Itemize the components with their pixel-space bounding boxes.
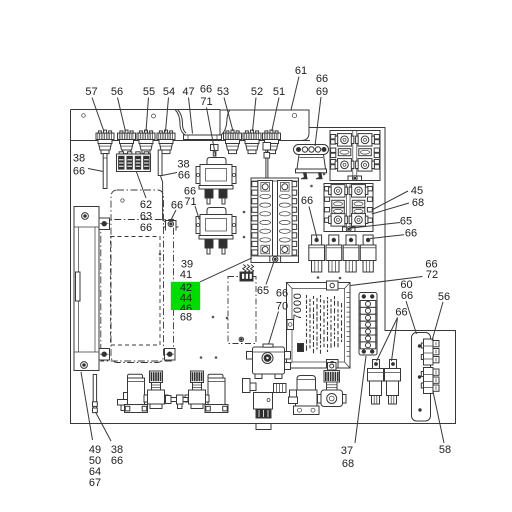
air valve item 70 — [253, 347, 285, 374]
filter block — [254, 393, 273, 410]
svg-text:66: 66 — [316, 73, 328, 85]
wire from rod to clip — [160, 176, 165, 223]
hidden bracket outline (dash-dot) — [111, 190, 164, 363]
wire from stud 51 to fuse block — [263, 143, 271, 151]
svg-text:72: 72 — [426, 269, 438, 281]
svg-text:68: 68 — [180, 312, 192, 324]
control module 7000 (item 72) — [287, 283, 351, 369]
svg-text:65: 65 — [400, 216, 412, 228]
circuit breaker panel 2 — [324, 184, 373, 232]
svg-text:57: 57 — [85, 86, 97, 98]
svg-text:54: 54 — [163, 86, 175, 98]
module fine print (simulated) — [307, 295, 342, 354]
relay item 66/71 upper — [207, 158, 226, 165]
svg-text:37: 37 — [341, 445, 353, 457]
breaker terminal unit 1 (item 66) — [312, 235, 322, 245]
leader lines — [81, 77, 444, 444]
svg-text:69: 69 — [316, 86, 328, 98]
relay B (item 66) — [390, 360, 397, 369]
MELLON logo block — [298, 344, 304, 352]
panel hole near bracket 47 right — [222, 114, 226, 118]
mounting pad top-left — [99, 218, 110, 230]
terminal stud 7 — [263, 130, 281, 154]
svg-text:56: 56 — [111, 86, 123, 98]
svg-text:56: 56 — [438, 291, 450, 303]
union fitting — [274, 384, 287, 393]
rod item 38 bottom — [93, 375, 96, 412]
svg-text:66: 66 — [395, 307, 407, 319]
relay item 66/69 — [294, 145, 329, 155]
mounting pad bottom-left — [99, 349, 110, 361]
relay item 66/71 lower — [207, 208, 226, 215]
svg-text:68: 68 — [342, 458, 354, 470]
tee fitting — [166, 396, 172, 404]
svg-text:38: 38 — [73, 153, 85, 165]
svg-text:41: 41 — [180, 269, 192, 281]
solenoid valve A — [128, 374, 143, 378]
terminal stud 5 — [224, 130, 242, 154]
svg-text:63: 63 — [140, 211, 152, 223]
hidden connector box (dash-dot) — [228, 277, 256, 344]
wavy pins item 65 area — [243, 265, 246, 273]
svg-text:66: 66 — [140, 222, 152, 234]
rod item 38 right — [158, 150, 162, 176]
terminal stud 4 — [157, 130, 175, 154]
panel main outline — [71, 110, 456, 424]
terminal stud 3 — [137, 130, 155, 154]
elbow fitting — [243, 379, 251, 393]
terminal strip item 37 — [359, 293, 377, 356]
cover plate item 61 — [220, 110, 309, 141]
svg-text:7000: 7000 — [292, 292, 304, 320]
svg-text:45: 45 — [411, 185, 423, 197]
terminal stud 2 — [118, 130, 136, 154]
panel bottom tab — [256, 424, 271, 430]
terminal stud 1 — [96, 130, 114, 154]
pressure regulator F — [328, 363, 337, 371]
relay A (item 66) — [373, 360, 380, 369]
svg-text:66: 66 — [111, 455, 123, 467]
solenoid valve E — [297, 376, 316, 391]
connector item 58 — [424, 368, 434, 394]
pressure regulator B — [150, 371, 163, 383]
svg-text:66: 66 — [200, 84, 212, 96]
svg-text:62: 62 — [140, 199, 152, 211]
svg-text:66: 66 — [73, 166, 85, 178]
breaker terminal unit 4 (item 66) — [363, 235, 373, 245]
svg-text:58: 58 — [439, 444, 451, 456]
connector block items 62/63 — [117, 154, 151, 172]
svg-text:66: 66 — [401, 290, 413, 302]
clip item 66 with screw — [163, 221, 179, 231]
bracket item 47 — [175, 110, 230, 136]
svg-text:71: 71 — [200, 96, 212, 108]
mounting plate item 60 — [412, 333, 431, 422]
module edge ticks — [347, 293, 351, 357]
svg-text:52: 52 — [251, 86, 263, 98]
fuse block (items 39/41/42/44/46/68) — [251, 178, 299, 263]
svg-text:66: 66 — [171, 200, 183, 212]
svg-text:66: 66 — [405, 228, 417, 240]
terminal stud 6 — [243, 130, 261, 154]
circuit breaker panel 1 — [330, 131, 380, 181]
svg-text:61: 61 — [295, 65, 307, 77]
mounting pad bottom-right — [165, 349, 176, 361]
small fitting far left — [124, 393, 130, 401]
svg-text:47: 47 — [182, 86, 194, 98]
channel bracket items 49/50/64/67 — [74, 207, 99, 371]
connector item 56 — [424, 339, 434, 365]
svg-text:66: 66 — [178, 170, 190, 182]
hidden panel inner dashed outline — [111, 237, 161, 346]
svg-text:65: 65 — [257, 285, 269, 297]
rod item 38 left — [103, 154, 107, 189]
svg-text:53: 53 — [217, 86, 229, 98]
svg-text:55: 55 — [143, 86, 155, 98]
svg-text:67: 67 — [89, 477, 101, 489]
fuse block bottom screw — [270, 256, 281, 263]
svg-text:71: 71 — [184, 196, 196, 208]
panel hole top-left — [82, 114, 86, 118]
breaker terminal unit 2 (item 66) — [329, 235, 339, 245]
svg-text:66: 66 — [301, 195, 313, 207]
wire terminal below stud 53 — [211, 145, 219, 151]
panel rivets — [159, 173, 342, 359]
svg-text:66: 66 — [276, 288, 288, 300]
solenoid valve D — [208, 374, 223, 378]
svg-text:68: 68 — [412, 197, 424, 209]
panel hole near bracket 47 left — [152, 114, 156, 118]
svg-text:51: 51 — [273, 86, 285, 98]
pressure regulator C — [191, 371, 204, 383]
breaker terminal unit 3 (item 66) — [346, 235, 356, 245]
svg-text:70: 70 — [276, 301, 288, 313]
